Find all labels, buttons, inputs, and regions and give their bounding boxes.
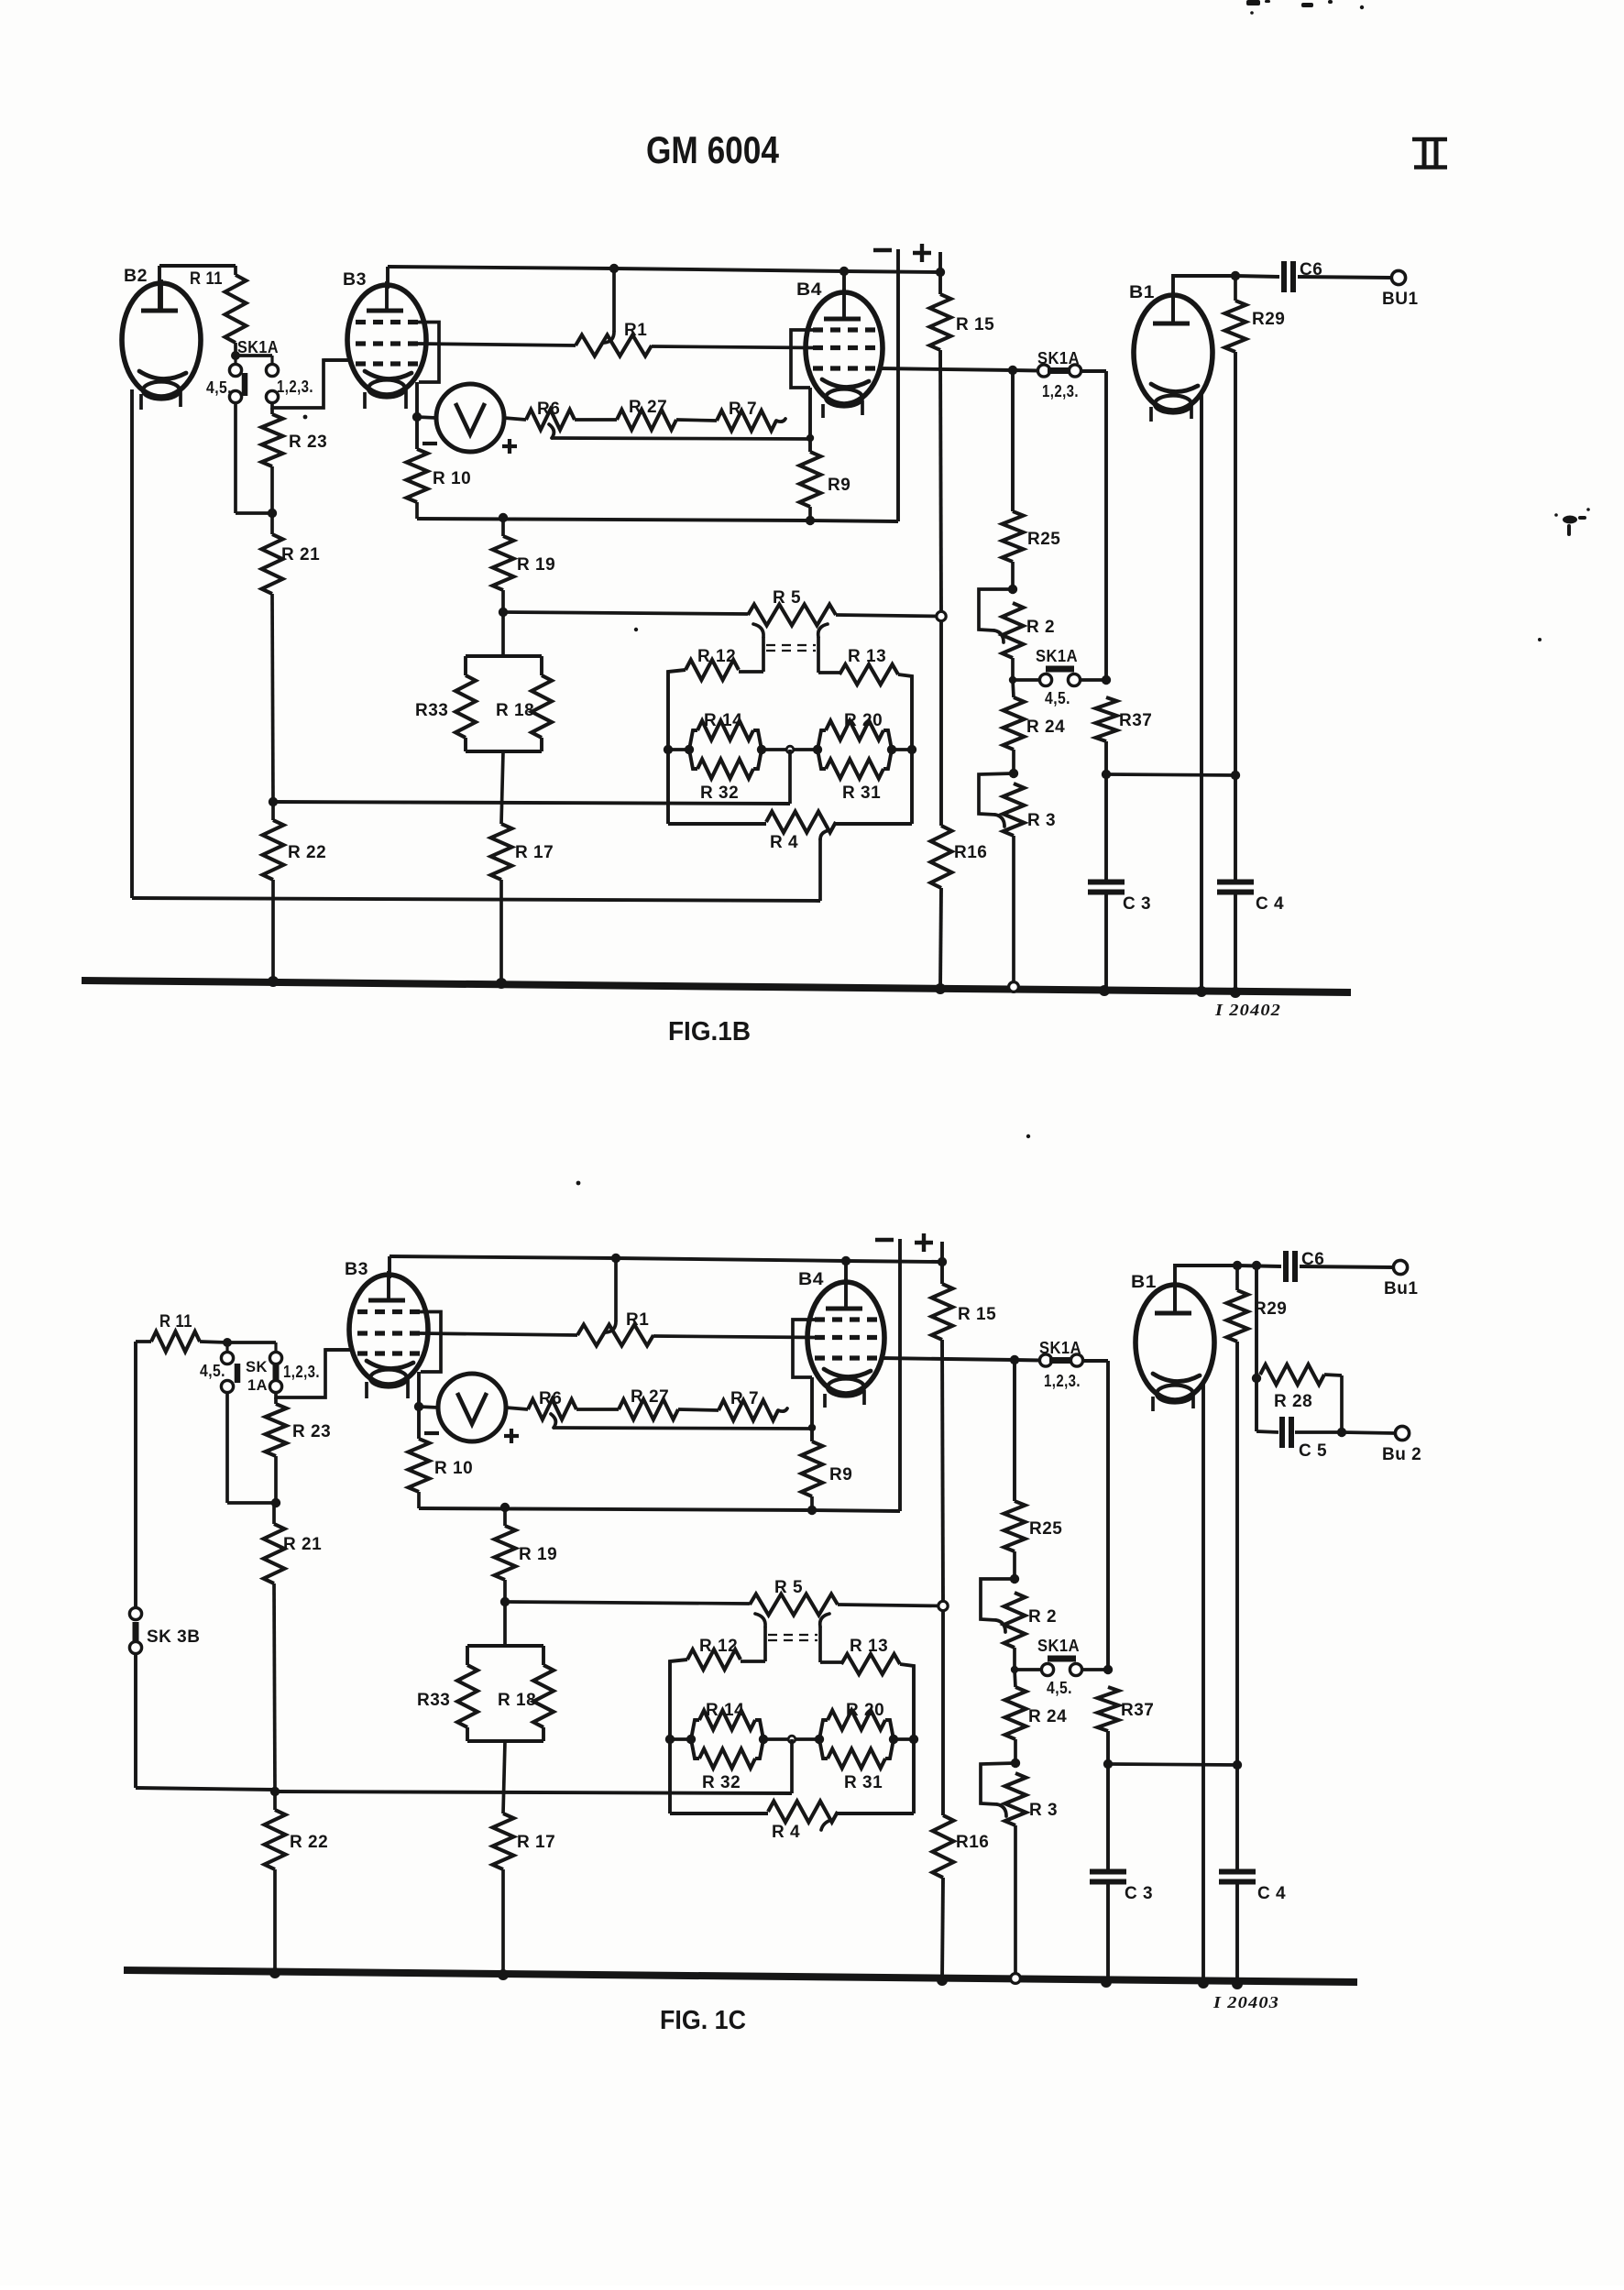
label SK1A mid xyxy=(1039,1339,1081,1357)
pin B2 right xyxy=(179,391,182,407)
label R32 xyxy=(702,1773,741,1792)
label R5 xyxy=(774,1578,803,1597)
junction R28 left xyxy=(1252,1374,1261,1383)
svg-text:R16: R16 xyxy=(954,843,987,862)
svg-text:R 18: R 18 xyxy=(498,1691,536,1710)
wire box bottom xyxy=(466,750,542,753)
label 4,5. xyxy=(200,1362,225,1380)
resistor R23 xyxy=(262,414,283,466)
wire R37 bottom xyxy=(1106,1731,1110,1869)
label 1,2,3. mid xyxy=(1042,382,1079,400)
label SK1A left xyxy=(237,338,279,356)
svg-text:C 5: C 5 xyxy=(1299,1441,1327,1461)
wire R37 feed xyxy=(0,0,1,1)
svg-text:R 15: R 15 xyxy=(958,1305,996,1324)
wire R7 tail xyxy=(776,419,785,422)
label R6 xyxy=(539,1389,562,1408)
wire R17 to bus xyxy=(499,880,503,981)
label R2 xyxy=(1028,1607,1057,1627)
wire box right xyxy=(900,1664,914,1813)
wire R25 bottom xyxy=(1011,562,1015,589)
wire R6 wiper to feedback xyxy=(549,424,810,439)
svg-text:R 31: R 31 xyxy=(844,1773,883,1792)
svg-text:R 24: R 24 xyxy=(1026,718,1065,737)
pin B4 right xyxy=(861,400,864,415)
supply minus mark xyxy=(875,1238,894,1242)
wire cathode bus xyxy=(419,1508,900,1511)
wire switch top link xyxy=(236,354,272,357)
label R2 xyxy=(1026,618,1055,637)
tube B2 xyxy=(122,279,201,400)
node bus R3 xyxy=(1011,1974,1021,1984)
junction middle node xyxy=(788,1736,796,1743)
junction top rail / plus rail xyxy=(938,1257,947,1266)
wire R29 top xyxy=(1234,276,1237,301)
capacitor C3 xyxy=(1088,882,1125,893)
junction R19 / cathode bus xyxy=(500,1503,510,1512)
svg-text:R 10: R 10 xyxy=(434,1459,473,1478)
wire R19 to box xyxy=(467,1644,543,1648)
switch SK1A contact 4-5 top xyxy=(229,364,241,376)
svg-text:R37: R37 xyxy=(1119,711,1152,730)
wire box bottom right xyxy=(836,822,912,826)
svg-text:4,5.: 4,5. xyxy=(1045,689,1070,707)
wire R21 top xyxy=(272,1503,276,1524)
wire R27-R7 xyxy=(676,420,717,421)
wire contact stub a xyxy=(225,1342,228,1353)
resistor R17 xyxy=(493,1813,514,1869)
wire SK3B to tap xyxy=(136,1653,275,1790)
switch SK1A mid contact left xyxy=(1039,1354,1051,1366)
label B1 xyxy=(1131,1273,1157,1292)
wire middle node drop xyxy=(788,750,792,804)
switch SK1A right bar xyxy=(273,1364,280,1381)
pin B4 left xyxy=(823,1394,827,1408)
junction R11 / switch xyxy=(231,351,240,360)
pin B4 left xyxy=(821,404,825,418)
supply plus mark xyxy=(913,244,931,262)
wire grid feed xyxy=(276,1350,351,1397)
svg-text:R 20: R 20 xyxy=(846,1701,884,1720)
resistor R24 xyxy=(1004,697,1025,750)
wire R13 link xyxy=(820,1660,841,1664)
label R27 xyxy=(629,398,667,417)
capacitor C4 xyxy=(1219,1872,1256,1882)
label 1,2,3. xyxy=(283,1363,320,1381)
resistor R7 xyxy=(719,1400,778,1420)
junction bus xyxy=(1099,985,1110,996)
svg-text:R 14: R 14 xyxy=(706,1701,744,1720)
wire B3 grid to R1 xyxy=(418,344,576,345)
junction bus xyxy=(268,976,279,987)
resistor R28 xyxy=(1260,1364,1324,1385)
wire R22 top xyxy=(273,1791,277,1810)
switch SK3B bar xyxy=(133,1622,139,1642)
wire SK1A low right xyxy=(1081,678,1106,682)
wire SK1A low right xyxy=(1082,1668,1108,1671)
junction bus xyxy=(269,1967,280,1978)
svg-text:R 17: R 17 xyxy=(515,843,554,862)
svg-text:1,2,3.: 1,2,3. xyxy=(1044,1372,1081,1390)
junction R37 / link xyxy=(1103,1759,1113,1769)
label R14 xyxy=(706,1701,744,1720)
wire to R14 pair xyxy=(670,1737,691,1741)
wire R25 feed xyxy=(1011,370,1015,511)
label C5 xyxy=(1299,1441,1327,1461)
wire plus rail top xyxy=(940,1242,944,1284)
svg-text:R 12: R 12 xyxy=(699,1637,738,1656)
svg-text:R 4: R 4 xyxy=(770,833,798,852)
label R25 xyxy=(1027,530,1060,549)
svg-text:SK1A: SK1A xyxy=(1037,349,1080,367)
pin B3 right xyxy=(404,389,408,409)
resistor R15 xyxy=(930,294,951,350)
resistor R19 xyxy=(493,536,514,590)
label B3 xyxy=(345,1260,368,1279)
pot bracket R3 xyxy=(979,773,1014,827)
wire B3 g1 lead-in xyxy=(324,358,349,362)
junction top rail / R1 wiper xyxy=(609,264,619,273)
label R19 xyxy=(517,555,555,575)
wire box bottom xyxy=(467,1739,543,1743)
wire R5 wiper left xyxy=(753,624,763,672)
resistor R13 xyxy=(841,1654,900,1674)
wire cathode bus xyxy=(417,519,898,521)
wire B3 anode stem xyxy=(386,267,390,289)
resistor R12 xyxy=(687,1649,741,1670)
junction B4 cathode / feedback xyxy=(808,1424,816,1431)
svg-text:R 32: R 32 xyxy=(702,1773,741,1792)
resistor R9 xyxy=(802,1441,823,1496)
junction top rail / B4 anode xyxy=(841,1256,850,1266)
switch SK1A contact 4-5 top xyxy=(221,1352,233,1364)
wire box left xyxy=(670,1660,687,1813)
supply minus mark xyxy=(873,248,892,252)
label R13 xyxy=(848,647,886,666)
capacitor C6 xyxy=(1286,1251,1295,1282)
wire link to C4 rail xyxy=(1108,1764,1237,1765)
wire B4 g3 to switch xyxy=(879,368,1039,371)
pin B1 left xyxy=(1149,407,1153,422)
wire C5 right xyxy=(1295,1430,1342,1434)
label 4,5. low xyxy=(1045,689,1070,707)
resistor R3 xyxy=(1005,1773,1026,1825)
wire R19 bottom xyxy=(503,1580,507,1646)
wire R11 right xyxy=(200,1342,227,1342)
resistor R2 xyxy=(1003,603,1024,658)
wire to R5 xyxy=(505,1602,750,1604)
wire R1 wiper xyxy=(604,268,614,343)
junction tap xyxy=(269,797,278,806)
switch SK1A contact 4-5 bottom xyxy=(221,1380,233,1392)
label SK3B xyxy=(147,1627,200,1647)
svg-text:R 17: R 17 xyxy=(517,1833,555,1852)
svg-text:4,5.: 4,5. xyxy=(206,378,232,397)
switch SK3B bottom contact xyxy=(129,1641,141,1653)
switch SK1A low bar xyxy=(1048,1656,1076,1662)
junction g3 wire / R25 rail xyxy=(1010,1355,1019,1364)
svg-text:R 11: R 11 xyxy=(159,1312,192,1331)
wire R17 to bus xyxy=(501,1869,505,1973)
label R13 xyxy=(850,1637,888,1656)
label R33 xyxy=(417,1691,450,1710)
svg-text:R1: R1 xyxy=(624,321,647,340)
resistor R19 xyxy=(495,1526,516,1580)
meter minus sign xyxy=(422,442,437,445)
label R16 xyxy=(956,1833,989,1852)
svg-text:SK: SK xyxy=(246,1358,268,1375)
wire R19 to box xyxy=(466,654,542,658)
svg-text:R29: R29 xyxy=(1254,1299,1287,1319)
label Bu1 xyxy=(1384,1279,1418,1298)
label R4 xyxy=(772,1823,800,1842)
terminal Bu1 xyxy=(1393,1260,1407,1274)
svg-text:4,5.: 4,5. xyxy=(200,1362,225,1380)
wire B1 anode rail xyxy=(1173,276,1235,325)
resistor R18 xyxy=(532,656,552,751)
resistor R13 xyxy=(839,664,898,685)
resistor R21 xyxy=(264,1524,285,1583)
wire anode rail B3-B4-plus xyxy=(388,267,940,272)
wire B4 g3 to switch xyxy=(881,1358,1041,1361)
switch SK1A bar xyxy=(242,373,248,396)
label BU1 xyxy=(1382,290,1419,309)
bus wire xyxy=(82,981,1351,992)
tube B1 xyxy=(1134,291,1213,413)
resistor R14 (pair top) xyxy=(686,1711,768,1769)
resistor R7 xyxy=(717,411,776,431)
label SK1A mid xyxy=(1037,349,1080,367)
wire R28 right xyxy=(1324,1375,1342,1431)
wire C4 rail xyxy=(1234,775,1237,882)
wire R25 bottom xyxy=(1013,1551,1016,1579)
figure 1C xyxy=(124,1233,1421,2035)
svg-text:R 7: R 7 xyxy=(730,1389,759,1408)
wire switch to drop xyxy=(1081,371,1106,680)
svg-text:B1: B1 xyxy=(1129,283,1155,302)
pot bracket R2 xyxy=(979,589,1013,642)
wire R25 feed xyxy=(1013,1360,1016,1501)
junction R3 top xyxy=(1011,1759,1020,1768)
resistor R11 xyxy=(225,266,247,343)
coupling dashes xyxy=(768,1635,817,1640)
terminal Bu2 xyxy=(1395,1426,1409,1440)
switch SK1A contact 1-3 top xyxy=(269,1352,281,1364)
label R10 xyxy=(434,1459,473,1478)
wire R19 top xyxy=(503,1507,507,1526)
switch SK1A low contact left xyxy=(1041,1663,1053,1675)
label 4,5. low xyxy=(1047,1679,1072,1697)
resistor R16 xyxy=(933,1815,954,1878)
switch SK1A mid bar xyxy=(1049,1357,1073,1364)
svg-text:R37: R37 xyxy=(1121,1701,1154,1720)
svg-text:R 5: R 5 xyxy=(774,1578,803,1597)
pin B2 left xyxy=(139,394,143,410)
junction box left node xyxy=(664,745,673,754)
wire R5 right xyxy=(838,1605,943,1606)
wire R22 to bus xyxy=(271,880,275,981)
label R22 xyxy=(290,1833,328,1852)
junction bus xyxy=(1196,986,1207,997)
wire to C6 xyxy=(1235,276,1279,277)
resistor R16 xyxy=(931,826,952,888)
supply plus mark xyxy=(915,1233,933,1252)
label R9 xyxy=(828,476,850,495)
wire B1 cathode xyxy=(1202,1384,1205,1983)
junction R28 rail top xyxy=(1252,1261,1261,1270)
resistor R29 xyxy=(1225,301,1246,352)
wire pair link xyxy=(763,1737,819,1741)
wire R10 bottom xyxy=(415,502,419,519)
svg-text:R 22: R 22 xyxy=(290,1833,328,1852)
resistor R1 xyxy=(576,335,652,356)
label R24 xyxy=(1028,1707,1067,1726)
wire box left xyxy=(668,670,686,824)
label R23 xyxy=(289,433,327,452)
junction R19 / cathode bus xyxy=(499,513,508,522)
label SK1A low xyxy=(1036,647,1078,665)
resistor R22 xyxy=(263,820,284,880)
svg-text:R 2: R 2 xyxy=(1028,1607,1057,1627)
label C3 xyxy=(1123,894,1151,914)
resistor R27 xyxy=(617,410,676,430)
meter plus sign xyxy=(502,439,517,454)
meter V xyxy=(438,1374,506,1441)
wire B4 cathode drop xyxy=(810,1377,814,1441)
svg-text:R 3: R 3 xyxy=(1027,811,1056,830)
junction C5 / R28 xyxy=(1337,1428,1346,1437)
resistor R10 xyxy=(409,1439,430,1492)
label C4 xyxy=(1256,894,1284,914)
label R22 xyxy=(288,843,326,862)
svg-text:SK1A: SK1A xyxy=(1037,1637,1080,1655)
pot bracket R3 xyxy=(981,1763,1015,1816)
wire C4 to bus xyxy=(1234,893,1237,993)
wire plus rail mid xyxy=(940,350,941,611)
junction R3 top xyxy=(1009,769,1018,778)
svg-text:R 27: R 27 xyxy=(631,1387,669,1407)
junction R9 / cathode bus xyxy=(807,1506,817,1515)
wire R16 to bus xyxy=(940,888,941,989)
wire contact stub a xyxy=(234,356,236,365)
label 1,2,3. xyxy=(277,378,313,396)
resistor R20 (pair) xyxy=(815,1711,898,1769)
label plate number I 20403 xyxy=(1213,1993,1279,2011)
switch SK1A low contact right xyxy=(1068,674,1080,685)
wire B2 cathode xyxy=(132,389,820,901)
label R37 xyxy=(1121,1701,1154,1720)
junction R9 / cathode bus xyxy=(806,516,815,525)
wire R2 bottom xyxy=(1011,658,1015,680)
wire R16 to bus xyxy=(942,1878,943,1980)
wire plus rail low xyxy=(939,621,943,826)
svg-text:B1: B1 xyxy=(1131,1273,1157,1292)
tube B1 xyxy=(1136,1281,1214,1403)
wire SK1A low left xyxy=(1015,1668,1041,1671)
label R21 xyxy=(283,1535,322,1554)
resistor R21 xyxy=(262,534,283,594)
tube B3 xyxy=(349,1271,428,1387)
resistor R4 xyxy=(766,812,836,833)
junction bus xyxy=(1198,1978,1209,1989)
junction bus xyxy=(498,1969,509,1980)
meter V xyxy=(436,384,504,452)
resistor R27 xyxy=(619,1399,678,1419)
wire grid feed xyxy=(272,360,349,408)
wire box to R17 xyxy=(503,1741,505,1813)
resistor R15 xyxy=(932,1284,953,1340)
wire R37 feed xyxy=(0,0,1,1)
resistor R4 xyxy=(768,1802,838,1823)
wire to R5 xyxy=(503,612,748,614)
label R29 xyxy=(1254,1299,1287,1319)
label page title GM 6004 xyxy=(646,128,780,171)
wire B4 anode stem xyxy=(842,271,846,292)
label R1 xyxy=(624,321,647,340)
switch SK1A contact 1-3 bottom xyxy=(266,390,278,402)
label R24 xyxy=(1026,718,1065,737)
resistor R17 xyxy=(491,824,512,880)
switch SK3B top contact xyxy=(129,1607,141,1619)
label R11 xyxy=(190,269,223,289)
capacitor C4 xyxy=(1217,882,1254,893)
wire meter right lead xyxy=(504,418,526,420)
node R5 / plus rail xyxy=(938,1601,948,1610)
label R28 xyxy=(1274,1392,1312,1411)
svg-text:C 4: C 4 xyxy=(1257,1884,1286,1903)
label R20 xyxy=(844,711,883,730)
wire R6 wiper to feedback xyxy=(551,1414,812,1429)
wire C3 to bus xyxy=(1106,1882,1110,1983)
junction bus xyxy=(935,983,946,994)
svg-text:Bu 2: Bu 2 xyxy=(1382,1445,1421,1464)
wire to Bu2 xyxy=(1342,1432,1395,1433)
switch SK1A low contact left xyxy=(1039,674,1051,685)
svg-text:R 4: R 4 xyxy=(772,1823,800,1842)
svg-text:R6: R6 xyxy=(537,400,560,419)
svg-text:Bu1: Bu1 xyxy=(1384,1279,1418,1298)
svg-text:SK1A: SK1A xyxy=(237,338,279,356)
wire plus rail mid xyxy=(942,1340,943,1601)
junction middle node xyxy=(786,746,794,753)
wire meter left lead xyxy=(419,1407,438,1408)
junction bus xyxy=(1101,1977,1112,1988)
wire pair to box right xyxy=(892,748,912,751)
label R33 xyxy=(415,701,448,720)
wire pair link xyxy=(762,748,817,751)
resistor R22 xyxy=(265,1810,286,1869)
wire anode rail B3-B4-plus xyxy=(390,1256,942,1262)
pin B3 left xyxy=(365,1382,368,1398)
label C3 xyxy=(1125,1884,1153,1903)
wire box bottom left xyxy=(670,1812,768,1815)
label R14 xyxy=(704,711,742,730)
svg-text:R 11: R 11 xyxy=(190,269,223,289)
wire C6 to BU1 xyxy=(1298,277,1391,278)
wire box to R17 xyxy=(501,751,503,824)
svg-text:R1: R1 xyxy=(626,1310,649,1330)
svg-text:R25: R25 xyxy=(1027,530,1060,549)
wire box right xyxy=(898,674,912,824)
junction SK1A low / drop xyxy=(1103,1665,1113,1674)
wire contact stub b xyxy=(274,1342,277,1353)
junction link / C4 rail xyxy=(1233,1760,1242,1770)
label R16 xyxy=(954,843,987,862)
label R15 xyxy=(958,1305,996,1324)
svg-text:R 28: R 28 xyxy=(1274,1392,1312,1411)
label R3 xyxy=(1027,811,1056,830)
switch SK1A mid contact left xyxy=(1037,365,1049,377)
